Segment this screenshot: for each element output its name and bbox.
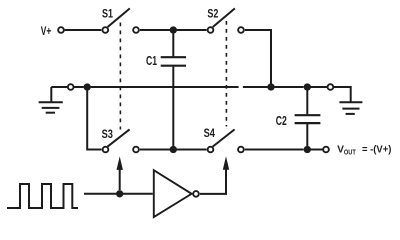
wire S2 right corner down [245,30,271,84]
arrow inverted clock to S4 [223,156,229,170]
node VOUT terminal [323,147,329,153]
junction dot mid-left [84,83,91,90]
switch S4 [208,129,244,152]
junction dot clock [116,190,123,197]
wire ground to circle [51,86,67,88]
ground left [39,87,63,113]
wire V+ to S1 [65,29,102,31]
switch S2 [208,8,244,32]
wire S1 to S2 [140,29,207,31]
svg-text:S2: S2 [207,6,218,20]
wire junction to VOUT circle [310,149,322,151]
switch S3 [103,129,139,152]
terminal circle mid-right [328,84,334,90]
junction dot C2 bottom [304,146,311,153]
wire C2 junction to circle [310,86,327,88]
svg-text:C1: C1 [146,54,157,68]
mid rail wire segment after gap [243,86,268,88]
junction dot S2 to mid rail [267,83,274,90]
wire inverter output corner up [200,169,226,194]
junction dot C1 top [170,26,177,33]
mid rail wire right [274,86,303,88]
arrow clock to S3 [117,156,123,190]
svg-text:S3: S3 [102,127,114,141]
ground right [339,102,362,114]
wire oscillator to inverter [84,193,153,195]
mid rail wire [91,86,239,88]
control dashed line S1-S3 [119,23,121,130]
svg-text:S4: S4 [204,126,216,140]
svg-text:= -(V+): = -(V+) [362,145,391,156]
svg-text:V+: V+ [41,24,52,38]
svg-text:S1: S1 [102,6,113,20]
wire circle to junction [74,86,84,88]
wire S3 to S4 [140,149,207,151]
oscillator square wave [7,184,78,208]
node V+ terminal [58,27,64,33]
junction dot C1 bottom [170,146,177,153]
capacitor C2 [295,90,321,146]
terminal circle mid-left [68,84,74,90]
control dashed line S2-S4 [225,21,227,127]
junction dot C2 top [304,83,311,90]
switch S1 [102,8,138,32]
wire mid junction down to S3 [87,90,101,149]
capacitor C1 [161,33,186,146]
wire S4 to output [245,149,304,151]
inverter U1 [154,170,199,217]
svg-text:OUT: OUT [344,149,356,156]
svg-text:C2: C2 [276,114,287,128]
wire to right ground [334,87,351,102]
